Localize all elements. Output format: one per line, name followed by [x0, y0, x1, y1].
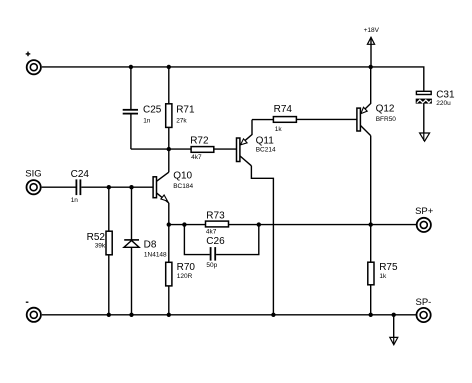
junction bottom rail / D8	[129, 313, 133, 317]
transistor Q10	[153, 149, 193, 225]
svg-text:Q11: Q11	[256, 136, 275, 147]
svg-text:D8: D8	[144, 240, 157, 251]
svg-text:R70: R70	[177, 262, 196, 273]
wire Q11 collector to bottom rail	[251, 166, 273, 315]
svg-text:SP-: SP-	[416, 297, 432, 308]
junction Q10 emitter node (R70/R73)	[167, 222, 171, 226]
svg-text:1n: 1n	[71, 197, 79, 204]
capacitor C26	[184, 225, 258, 269]
resistor R52	[87, 187, 113, 315]
wire bottom rail	[42, 314, 417, 316]
terminal + (positive supply)	[26, 52, 41, 75]
power +18V	[364, 27, 380, 67]
svg-text:Q10: Q10	[173, 170, 192, 181]
svg-text:1k: 1k	[379, 273, 387, 280]
junction top rail / C25	[129, 65, 133, 69]
wire Q12 collector down to SP+ node and R75	[370, 136, 372, 263]
terminal SIG	[25, 168, 41, 194]
resistor R75	[368, 262, 398, 315]
transistor Q11	[237, 120, 276, 166]
terminal SP+	[415, 206, 434, 232]
svg-text:R71: R71	[176, 104, 195, 115]
resistor R70	[166, 225, 196, 315]
terminal SP-	[416, 297, 432, 322]
diode D8	[124, 187, 167, 315]
svg-text:120R: 120R	[177, 273, 193, 280]
resistor R72	[169, 136, 237, 161]
svg-text:1k: 1k	[275, 126, 283, 133]
svg-text:R52: R52	[87, 232, 106, 243]
resistor R74	[252, 104, 357, 133]
junction R73 wire / C26 branch left	[182, 222, 186, 226]
svg-text:R75: R75	[379, 262, 398, 273]
svg-text:+18V: +18V	[364, 27, 380, 34]
terminal - (negative supply)	[26, 302, 41, 322]
svg-text:BC214: BC214	[256, 146, 276, 153]
svg-text:BFR50: BFR50	[376, 116, 397, 123]
junction bottom rail / ground	[392, 313, 396, 317]
wire SIG to C24	[42, 186, 76, 188]
svg-text:39k: 39k	[95, 243, 106, 250]
svg-text:27k: 27k	[176, 117, 187, 124]
svg-text:Q12: Q12	[376, 103, 395, 114]
capacitor C24	[71, 169, 90, 204]
wire top supply rail	[42, 67, 424, 91]
resistor R73	[169, 211, 417, 236]
capacitor C25	[123, 67, 162, 149]
svg-text:220u: 220u	[436, 100, 451, 107]
junction base wire / D8	[129, 185, 133, 189]
svg-text:C24: C24	[71, 169, 90, 180]
wire C25 bottom to mid node	[131, 148, 169, 150]
svg-text:C25: C25	[143, 104, 162, 115]
svg-text:C26: C26	[206, 236, 225, 247]
svg-text:SP+: SP+	[415, 206, 434, 217]
ground below C31	[420, 133, 430, 141]
svg-text:BC184: BC184	[173, 183, 193, 190]
junction R73 wire / Q12 collector line	[369, 222, 373, 226]
junction bottom rail / R70	[167, 313, 171, 317]
transistor Q12	[357, 67, 396, 136]
junction bottom rail / Q11 collector	[271, 313, 275, 317]
resistor R71	[166, 67, 195, 149]
svg-text:50p: 50p	[206, 262, 217, 269]
capacitor C31	[416, 90, 455, 141]
svg-text:4k7: 4k7	[191, 154, 202, 161]
junction base wire / R52	[107, 185, 111, 189]
svg-text:R73: R73	[206, 211, 225, 222]
svg-text:4k7: 4k7	[206, 229, 217, 236]
svg-text:SIG: SIG	[25, 168, 41, 179]
junction mid node (C25/R71/R72/Q10 collector)	[167, 147, 171, 151]
junction R73 wire / C26 branch right	[257, 222, 261, 226]
junction top rail / +18V	[369, 65, 373, 69]
svg-text:1N4148: 1N4148	[144, 252, 167, 259]
svg-text:1n: 1n	[143, 117, 151, 124]
wire C24 to Q10 base	[81, 186, 153, 188]
svg-text:R74: R74	[274, 104, 293, 115]
ground at bottom rail	[390, 315, 398, 345]
svg-text:R72: R72	[190, 136, 209, 147]
junction top rail / R71	[167, 65, 171, 69]
junction bottom rail / R52	[107, 313, 111, 317]
svg-text:C31: C31	[436, 90, 455, 101]
junction bottom rail / R75	[369, 313, 373, 317]
